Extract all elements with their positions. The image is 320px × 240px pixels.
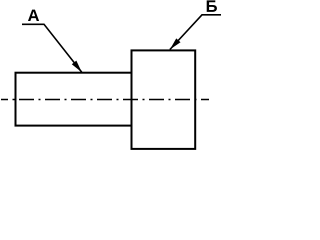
large cylinder (shaft head, right)	[132, 50, 196, 148]
small cylinder (shaft body, left)	[16, 73, 132, 126]
arrowhead B	[170, 38, 181, 49]
label A	[28, 10, 39, 21]
arrowhead A	[72, 61, 82, 73]
leader line A	[22, 24, 82, 72]
label B	[207, 0, 217, 11]
centerline (shaft axis, dash-dot)	[1, 99, 209, 101]
leader line B	[170, 15, 221, 50]
